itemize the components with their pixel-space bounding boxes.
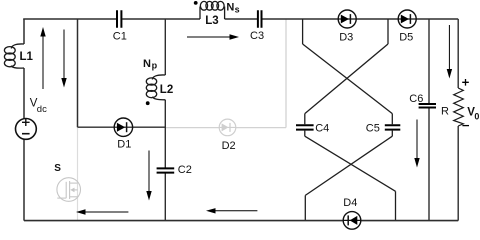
capacitor C1 xyxy=(117,10,121,28)
svg-text:s: s xyxy=(235,5,240,15)
arrow: up current arrow near L1 xyxy=(40,27,45,89)
wire: bottom rail xyxy=(24,220,458,222)
wire: gray branch vertical from top rail to D2 line xyxy=(285,19,287,128)
X-structure: diagonal C4 to bottom right xyxy=(305,136,396,191)
wire: left branch vertical (Vdc / L1) xyxy=(23,19,25,221)
wire: C6 branch vertical xyxy=(428,19,430,221)
capacitor C4 xyxy=(296,114,314,137)
svg-text:D5: D5 xyxy=(399,31,413,43)
X-structure: bottom left stub xyxy=(304,195,306,220)
X-structure: left top stub xyxy=(302,19,304,44)
inductor L2 xyxy=(146,75,165,100)
svg-text:C2: C2 xyxy=(178,164,192,176)
inductor L3 leads xyxy=(200,7,225,20)
label - output xyxy=(462,125,469,127)
svg-text:S: S xyxy=(54,163,61,174)
diode D1 xyxy=(114,118,132,136)
arrow: left current arrow on bottom rail (middle) xyxy=(206,208,257,213)
svg-text:C5: C5 xyxy=(366,122,380,134)
wire: top rail left segment xyxy=(23,18,116,20)
diode D2 (grayed) xyxy=(219,119,236,136)
wire: top rail L3 to C3 xyxy=(225,18,257,20)
label + output xyxy=(462,79,469,86)
svg-text:dc: dc xyxy=(37,104,47,115)
X-structure: diagonal A to C5 xyxy=(303,44,393,114)
svg-text:C1: C1 xyxy=(113,30,127,42)
svg-text:0: 0 xyxy=(474,112,479,122)
arrow: right current arrow below L3 xyxy=(187,34,239,39)
arrow: down current arrow near C2 xyxy=(146,151,151,201)
capacitor C5 xyxy=(385,114,401,137)
svg-text:p: p xyxy=(152,61,158,71)
arrow: down arrow left of C6 xyxy=(414,120,419,168)
wire: top rail C1 to L3 xyxy=(122,18,200,20)
svg-text:L2: L2 xyxy=(160,84,173,96)
svg-text:C6: C6 xyxy=(409,93,423,105)
inductor L3 coil xyxy=(200,1,224,10)
svg-text:N: N xyxy=(143,58,151,70)
X-structure: diagonal B to C4 xyxy=(305,44,388,114)
transistor S (MOSFET, grayed) xyxy=(57,178,81,202)
arrow: down current arrow x=64 xyxy=(61,30,66,88)
wire: top rail C3 to right corner xyxy=(262,18,458,20)
svg-text:N: N xyxy=(226,1,234,13)
svg-text:D1: D1 xyxy=(117,138,131,150)
X-structure: diagonal C5 to bottom left xyxy=(305,136,392,195)
wire: right branch (output) xyxy=(457,19,459,221)
arrow: left current arrow on bottom rail (left) xyxy=(76,209,128,214)
capacitor C2 xyxy=(157,168,175,172)
arrow: down output current arrow (top right) xyxy=(447,25,452,79)
wire: gray horizontal D2 line xyxy=(165,127,286,129)
wire: branch at x=77.5 from top rail down xyxy=(77,19,79,127)
diode D3 xyxy=(338,10,356,28)
capacitor C6 xyxy=(419,104,436,108)
svg-text:D4: D4 xyxy=(343,197,357,209)
X-structure: bottom right stub xyxy=(395,191,397,220)
svg-text:L3: L3 xyxy=(205,15,218,27)
X-structure: right top stub xyxy=(387,19,389,44)
svg-text:C3: C3 xyxy=(250,30,264,42)
diode D5 xyxy=(398,10,416,28)
phase dot L2 xyxy=(146,101,150,105)
resistor R xyxy=(454,88,464,126)
wire: gray MOSFET branch vertical xyxy=(77,127,79,220)
phase dot L3 xyxy=(194,1,198,5)
svg-text:D3: D3 xyxy=(339,31,353,43)
svg-text:C4: C4 xyxy=(315,122,329,134)
source Vdc xyxy=(16,118,37,139)
svg-text:D2: D2 xyxy=(222,140,236,152)
inductor L1 xyxy=(4,44,24,68)
svg-text:R: R xyxy=(441,106,449,118)
diode D4 xyxy=(343,212,361,230)
capacitor C3 xyxy=(258,10,262,28)
svg-text:L1: L1 xyxy=(20,51,34,63)
wire: D1 horizontal wire xyxy=(78,126,166,128)
wire: L2/C2 branch vertical xyxy=(164,19,166,221)
